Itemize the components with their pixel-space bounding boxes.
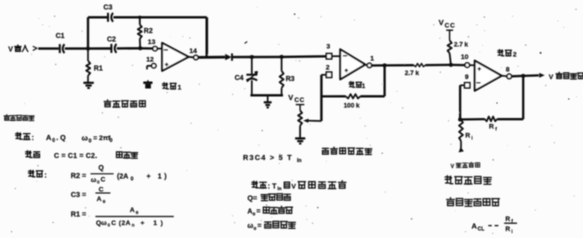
svg-text:R1 =: R1 = — [71, 209, 86, 218]
svg-text:2: 2 — [513, 52, 517, 59]
svg-text:ω: ω — [247, 223, 253, 230]
svg-text:ω: ω — [82, 133, 88, 142]
svg-text:ω: ω — [91, 177, 97, 184]
svg-text:10: 10 — [461, 54, 469, 61]
svg-text:R2: R2 — [144, 28, 153, 35]
svg-text:(2A: (2A — [117, 173, 128, 180]
svg-text:. Q: . Q — [56, 133, 66, 142]
svg-text:3: 3 — [326, 43, 330, 50]
svg-text:0: 0 — [131, 176, 134, 182]
svg-text:0: 0 — [254, 226, 257, 232]
svg-text:1: 1 — [370, 56, 374, 63]
svg-text:A: A — [472, 222, 478, 231]
svg-text:CL: CL — [478, 227, 485, 233]
svg-text:V: V — [291, 184, 296, 191]
svg-text:2.7 k: 2.7 k — [405, 70, 420, 77]
svg-text:C3 =: C3 = — [71, 190, 86, 199]
svg-text:0: 0 — [97, 179, 100, 184]
svg-text::: : — [44, 173, 46, 180]
svg-text:C3: C3 — [103, 4, 112, 11]
svg-text:0: 0 — [103, 199, 106, 204]
svg-text:+ 1): + 1) — [141, 220, 167, 227]
svg-text:CC: CC — [294, 97, 304, 104]
svg-text:n: n — [132, 222, 135, 227]
svg-text:=: = — [257, 223, 261, 230]
svg-text:A: A — [130, 207, 135, 214]
svg-text:100 k: 100 k — [344, 102, 360, 109]
svg-text:R: R — [465, 133, 470, 140]
svg-text:9: 9 — [465, 74, 469, 81]
svg-text:A: A — [46, 133, 52, 142]
svg-text:Q: Q — [98, 165, 104, 172]
svg-text:2: 2 — [326, 64, 330, 71]
svg-text:A: A — [97, 196, 102, 203]
svg-text:C = C1 = C2.: C = C1 = C2. — [54, 153, 97, 160]
svg-text:V: V — [8, 46, 13, 53]
svg-text:R2 =: R2 = — [71, 171, 86, 180]
svg-text:V: V — [549, 74, 554, 81]
svg-text:i: i — [471, 136, 472, 142]
svg-text:C (2A: C (2A — [111, 220, 131, 227]
svg-text:V: V — [451, 164, 455, 170]
svg-text:14: 14 — [189, 48, 197, 55]
svg-text:C: C — [99, 186, 104, 193]
svg-text:= 2πf: = 2πf — [93, 135, 111, 142]
svg-text:R3C4 > 5 T: R3C4 > 5 T — [243, 153, 293, 162]
svg-text:C: C — [101, 177, 106, 184]
svg-text:R1: R1 — [94, 66, 103, 73]
svg-text:12: 12 — [146, 56, 154, 63]
svg-text:V: V — [288, 93, 293, 102]
svg-text:1: 1 — [178, 84, 182, 91]
svg-text:Qω: Qω — [96, 220, 107, 227]
svg-text:R: R — [489, 123, 494, 130]
svg-text:1: 1 — [362, 83, 366, 90]
svg-text::: : — [32, 135, 34, 142]
svg-text:R: R — [505, 226, 510, 233]
svg-text:in: in — [277, 186, 281, 191]
svg-text:=: = — [256, 209, 260, 216]
svg-text:C1: C1 — [56, 33, 65, 40]
svg-text:in: in — [297, 158, 301, 164]
svg-text:i: i — [511, 229, 512, 234]
svg-text:R3: R3 — [286, 76, 295, 83]
svg-text:8: 8 — [506, 66, 510, 73]
svg-text:0: 0 — [136, 210, 139, 215]
svg-text:0: 0 — [52, 138, 55, 144]
svg-text:Q=: Q= — [247, 193, 257, 202]
svg-text:0: 0 — [110, 138, 113, 144]
svg-text:R: R — [505, 216, 510, 223]
svg-text:0: 0 — [253, 211, 256, 217]
svg-text:+ 1): + 1) — [147, 173, 170, 180]
svg-text:13: 13 — [148, 39, 156, 46]
svg-text:0: 0 — [89, 138, 92, 144]
svg-text:CC: CC — [445, 22, 456, 29]
svg-text:2.7 k: 2.7 k — [454, 41, 469, 48]
svg-text:C4: C4 — [235, 75, 244, 82]
svg-text:: T: : T — [268, 183, 277, 190]
svg-text:C2: C2 — [107, 36, 116, 43]
